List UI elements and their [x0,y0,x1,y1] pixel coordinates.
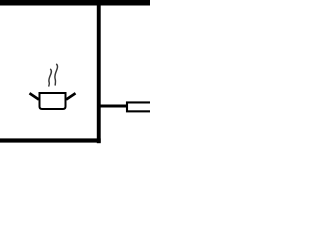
wall bottom left [0,138,101,142]
pot body [40,93,66,109]
pot handle right [66,93,75,99]
wall vertical center [97,0,101,143]
wall top [0,0,150,6]
steam line right [55,64,58,85]
wall right horizontal [100,105,127,108]
steam line left [49,69,52,86]
window symbol [127,102,153,111]
pot handle left [30,93,39,99]
